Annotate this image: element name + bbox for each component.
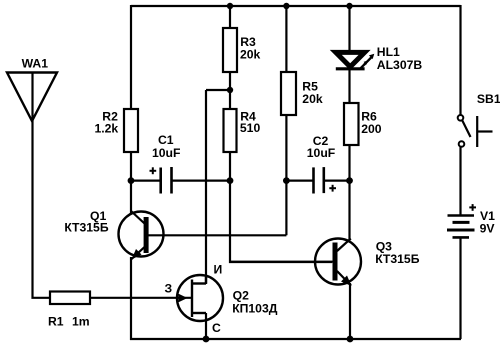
svg-text:R1: R1 — [48, 315, 64, 329]
svg-text:КТ315Б: КТ315Б — [375, 252, 420, 266]
svg-text:З: З — [165, 281, 173, 295]
svg-text:HL1: HL1 — [377, 45, 400, 59]
svg-text:1m: 1m — [72, 315, 90, 329]
svg-text:SB1: SB1 — [477, 92, 500, 106]
svg-text:9V: 9V — [480, 221, 496, 235]
svg-text:Q2: Q2 — [233, 288, 249, 302]
svg-text:20k: 20k — [240, 48, 261, 62]
svg-text:10uF: 10uF — [152, 146, 180, 160]
svg-text:C1: C1 — [158, 133, 174, 147]
svg-text:КП103Д: КП103Д — [232, 301, 278, 315]
svg-text:200: 200 — [361, 122, 382, 136]
svg-text:WA1: WA1 — [22, 56, 49, 70]
svg-text:510: 510 — [240, 121, 261, 135]
svg-text:И: И — [214, 263, 223, 277]
svg-text:20k: 20k — [302, 92, 323, 106]
svg-text:10uF: 10uF — [307, 146, 335, 160]
svg-text:1.2k: 1.2k — [94, 121, 118, 135]
svg-text:С: С — [212, 321, 221, 335]
svg-text:AL307B: AL307B — [377, 58, 423, 72]
svg-text:КТ315Б: КТ315Б — [64, 221, 109, 235]
